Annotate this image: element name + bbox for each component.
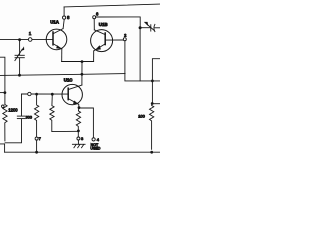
terminal 6 [93, 16, 96, 19]
wire U1C emitter [78, 105, 80, 108]
svg-text:7: 7 [39, 136, 42, 141]
svg-text:1200: 1200 [8, 107, 18, 112]
svg-text:600: 600 [26, 115, 32, 119]
svg-text:6: 6 [96, 11, 99, 16]
terminal 8 [63, 16, 66, 19]
terminal 1 [28, 38, 32, 42]
wire terminal 8 riser [63, 7, 65, 16]
node U1C collector cross [81, 73, 84, 76]
wire terminal 7 to rail [36, 140, 38, 152]
node R4 bottom junction [77, 130, 80, 133]
ground [72, 144, 85, 147]
wire varactor bus drop [139, 29, 141, 81]
capacitor VC1 plates [15, 54, 24, 56]
node left stub junction [4, 91, 7, 94]
svg-text:1: 1 [29, 31, 32, 36]
wire U1B emitter drop [93, 51, 95, 62]
resistor R1 [3, 105, 7, 141]
wire R5 node to right edge [152, 103, 160, 105]
svg-text:8: 8 [67, 15, 70, 20]
resistor R5 [150, 104, 154, 150]
wire VC2 lead right [155, 27, 160, 29]
wire base bus of U1C [22, 93, 69, 95]
wire bottom rail jog at left edge [0, 144, 5, 152]
svg-text:100: 100 [138, 114, 145, 119]
wire input to terminal 1 [0, 39, 28, 41]
node emitters junction [81, 60, 84, 63]
wire emitter junction rail [62, 61, 94, 63]
svg-text:U1A: U1A [50, 20, 60, 25]
wire varactor stem bottom [19, 58, 21, 75]
terminal on base bus [28, 92, 31, 95]
node rail junction 7 [35, 151, 38, 154]
transistor U1C [62, 84, 82, 104]
svg-text:3: 3 [81, 136, 84, 141]
transistor U1B [91, 30, 113, 52]
terminal 3 [77, 137, 80, 140]
wire right edge stub [152, 59, 160, 104]
resistor R2 [35, 94, 39, 137]
svg-text:USED: USED [90, 146, 100, 150]
wire long mid bus left edge to terminal2 drop [0, 74, 125, 76]
wire U1A emitter drop [61, 49, 63, 62]
resistor R3 [50, 94, 79, 131]
node R3 top [51, 93, 54, 96]
resistor R4 [76, 108, 80, 138]
wire U1A collector to terminal 8 [63, 19, 64, 28]
node resistor R5 top [151, 102, 154, 105]
wire terminal 1 to U1A base [32, 39, 53, 41]
capacitor C1 plates [17, 115, 25, 117]
terminal R1 top [2, 105, 5, 108]
svg-text:U1B: U1B [99, 22, 108, 27]
terminal 7 [35, 137, 38, 140]
svg-text:2: 2 [124, 33, 127, 38]
node varactor VC2 junction [139, 26, 142, 29]
node lower bus cross [151, 80, 154, 83]
wire VC2 lead left [142, 27, 151, 29]
capacitor VC1 arrow [15, 49, 22, 60]
wire bottom rail [5, 151, 160, 153]
wire terminal 2 drop to lower bus [125, 41, 160, 81]
wire C1 top stem [21, 94, 23, 116]
wire emitter node to terminal 4 [79, 108, 93, 138]
node R5 bottom rail junction [150, 151, 153, 154]
node R2 top [35, 93, 38, 96]
wire varactor stem top [19, 40, 21, 55]
node emitter junction [78, 106, 81, 109]
wire top rail to right edge [64, 4, 160, 7]
wire U1B base to terminal 2 [105, 39, 123, 41]
node varactor bottom junction [18, 74, 21, 77]
wire left edge lower stub [0, 92, 5, 94]
wire left edge upper stub [0, 57, 5, 104]
svg-text:U1C: U1C [64, 78, 74, 83]
svg-text:4: 4 [97, 137, 100, 142]
wire R1 bottom U-link [5, 119, 21, 143]
terminal 2 [123, 38, 126, 41]
terminal 4 [92, 138, 95, 141]
wire U1C collector riser [81, 62, 83, 86]
transistor U1A [46, 29, 67, 50]
capacitor VC2 arrow [147, 24, 154, 30]
wire terminal 3 to ground [77, 140, 79, 144]
capacitor VC2 plates [150, 25, 152, 31]
wire terminal 6 to top right corner [96, 17, 141, 27]
node varactor top junction [18, 38, 21, 41]
wire U1B collector to terminal 6 [93, 19, 95, 30]
